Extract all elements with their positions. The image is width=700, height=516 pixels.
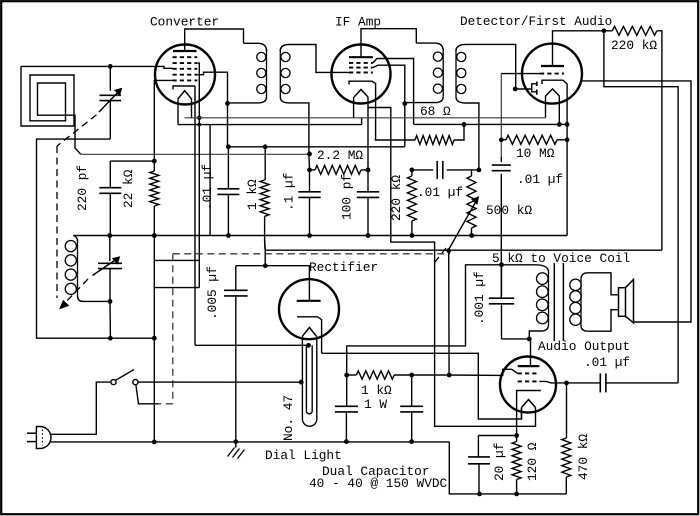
- node osc coil bottom: [108, 299, 113, 304]
- node 220pf top: [152, 159, 157, 164]
- IF transformer T2 secondary: [456, 44, 466, 51]
- wire detector plate feedback jog: [604, 31, 678, 383]
- wire IF amp heater left leg: [353, 97, 355, 118]
- resistor 120 Ohm: [516, 436, 518, 442]
- node IF2 secondary bottom to pot: [477, 168, 482, 173]
- svg-text:.001 µf: .001 µf: [472, 271, 487, 325]
- wire B+ distribution line: [265, 249, 662, 251]
- svg-text:Audio Output: Audio Output: [538, 339, 630, 354]
- node 40uf B ground: [409, 439, 414, 444]
- capacitor .1 uf: [307, 152, 312, 157]
- svg-text:IF Amp: IF Amp: [335, 15, 381, 30]
- converter cathode: [173, 86, 195, 90]
- wire antenna top to converter grid: [21, 65, 155, 67]
- capacitor 100 pf: [366, 168, 371, 173]
- svg-text:220 pf: 220 pf: [75, 165, 90, 211]
- wire antenna inner return (AVC bus): [81, 153, 310, 155]
- node 120 ohm ground: [514, 492, 519, 497]
- svg-text:.01 µf: .01 µf: [200, 164, 215, 210]
- output transformer secondary: [581, 273, 588, 279]
- wire right-edge voice coil return: [582, 81, 691, 322]
- on/off switch S1: [111, 380, 116, 385]
- wire IF amp grid2 lead right lower: [373, 65, 405, 103]
- node 1k left: [344, 373, 349, 378]
- wire secondary to speaker bottom: [588, 310, 619, 332]
- node 68 ohm to heater line: [462, 122, 467, 127]
- svg-text:Converter: Converter: [150, 15, 219, 30]
- chassis ground symbol: [235, 442, 237, 448]
- resistor 22 kOhm (osc grid leak): [150, 171, 159, 206]
- svg-text:Rectifier: Rectifier: [309, 260, 378, 275]
- wire main AVC/ground rail: [73, 235, 567, 237]
- tube V5 Audio Output envelope: [500, 357, 556, 413]
- dashed gang box bottom: [158, 403, 172, 405]
- tube V4 Rectifier envelope: [279, 279, 339, 339]
- node oscillator cap stem on bottom bus: [108, 336, 113, 341]
- node audio plate / primary junction: [527, 337, 532, 342]
- wiper arrow of volume control: [449, 197, 479, 250]
- wire rectifier cathode B+ feed: [322, 353, 522, 419]
- capacitor 220 pf: [99, 187, 121, 189]
- svg-text:120 Ω: 120 Ω: [525, 442, 540, 481]
- wire rectifier plate to line: [236, 266, 310, 301]
- svg-text:500 kΩ: 500 kΩ: [486, 203, 532, 218]
- resistor 68 Ohm: [375, 139, 415, 141]
- svg-text:20 µf: 20 µf: [492, 443, 507, 481]
- wire screen dropper branch: [209, 125, 211, 236]
- resistor 470 kOhm: [566, 383, 568, 438]
- wire detector cathode down: [563, 80, 567, 235]
- node rectifier plate / .005 junction: [263, 263, 268, 268]
- ganged tuning dashed link: [57, 115, 97, 146]
- wire grid2 jumper lower: [154, 287, 199, 289]
- wire audio grid2 to coupling cap: [539, 381, 566, 383]
- arrow of variable capacitor C1: [99, 89, 122, 113]
- node B+ to output transformer: [499, 262, 504, 267]
- node osc bus on bottom rail: [152, 440, 157, 445]
- svg-text:68 Ω: 68 Ω: [420, 104, 451, 119]
- svg-text:100 pf: 100 pf: [340, 174, 355, 220]
- detector heater: [546, 89, 560, 96]
- IF transformer T1 secondary: [280, 45, 289, 52]
- capacitor .01 uf coupling to volume: [412, 169, 433, 171]
- svg-text:.01 µf: .01 µf: [517, 172, 563, 187]
- IF amp heater: [354, 90, 368, 98]
- tube V2 IF Amp envelope: [332, 45, 391, 104]
- wire audio plate up: [530, 339, 532, 366]
- svg-text:2.2 MΩ: 2.2 MΩ: [317, 148, 363, 163]
- tube V3 Detector/First Audio envelope: [522, 44, 582, 104]
- svg-text:22 kΩ: 22 kΩ: [121, 169, 136, 208]
- potentiometer 500 kOhm (volume): [471, 170, 473, 176]
- svg-text:.1 µf: .1 µf: [282, 173, 297, 211]
- wire switch to dial light: [138, 381, 301, 383]
- svg-text:Dial Light: Dial Light: [265, 448, 342, 463]
- svg-text:Detector/First Audio: Detector/First Audio: [460, 14, 612, 29]
- wire converter plate to IF1 primary: [185, 29, 244, 51]
- IF amp plate: [349, 56, 373, 58]
- wire tuning return to left bus: [37, 139, 155, 338]
- wire screen node down through .01uf: [227, 103, 229, 146]
- capacitor .005 uf line bypass: [235, 266, 237, 291]
- AC plug: [36, 427, 51, 449]
- wire audio heater left leg: [521, 408, 523, 420]
- wire converter grid2 lead down: [197, 63, 199, 288]
- node detector plate junction: [602, 28, 607, 33]
- node IF1 primary bottom / screen junction: [225, 101, 230, 106]
- node dial light top: [306, 343, 311, 348]
- rectifier heater: [302, 328, 316, 337]
- output transformer core: [553, 263, 555, 341]
- capacitor .01 uf (converter screen bypass): [226, 144, 231, 149]
- svg-text:1 kΩ: 1 kΩ: [361, 383, 392, 398]
- wire heater jog chain to audio output heater: [368, 108, 536, 427]
- IF amp grids: [349, 62, 373, 64]
- wire heater chain lower rail: [178, 124, 362, 126]
- wire screen bypass down: [404, 104, 406, 147]
- dashed link volume to switch: [434, 248, 447, 264]
- IF amp cathode: [349, 81, 376, 140]
- wire converter cathode down to dial light: [194, 86, 196, 345]
- capacitor 40 uf A (dual electrolytic): [346, 375, 348, 406]
- dashed gang box left: [172, 254, 174, 404]
- rectifier cathode: [297, 317, 322, 354]
- wire converter oscillator grid line: [154, 80, 172, 171]
- node .005 ground: [233, 439, 238, 444]
- converter grids (pentagrid): [173, 56, 198, 58]
- variable capacitor C1 (tuning): [109, 66, 111, 90]
- svg-text:10 MΩ: 10 MΩ: [516, 146, 555, 161]
- IF transformer T1 primary: [244, 43, 267, 51]
- variable capacitor C2 (oscillator): [109, 236, 111, 262]
- resistor 220 kOhm (plate load): [604, 30, 612, 32]
- resistor 220 kOhm vertical: [410, 168, 415, 173]
- wire detector grid lead left: [501, 73, 540, 75]
- audio output cathode: [517, 391, 541, 436]
- wire plug to switch: [50, 382, 111, 434]
- audio output heater: [522, 400, 536, 408]
- node dial light side: [299, 380, 304, 385]
- detector diode plates: [536, 82, 538, 86]
- wire converter heater right leg: [191, 99, 193, 118]
- node cathode bias junction: [514, 433, 519, 438]
- node detector cathode junction upper: [565, 122, 570, 127]
- output transformer primary: [502, 264, 536, 266]
- node 1k right: [409, 373, 414, 378]
- resistor 2.2 MOhm: [307, 168, 312, 173]
- capacitor .01 uf detector filter: [500, 74, 502, 157]
- wire IF amp plate to IF2 primary: [361, 29, 416, 58]
- wire IF2 secondary top to detector diodes: [466, 44, 516, 89]
- wire heater/AVC bus: [185, 117, 546, 119]
- node antenna / tuning cap junction: [108, 64, 113, 69]
- node diode feed: [513, 87, 518, 92]
- rectifier plate: [297, 300, 321, 302]
- node volume wiper on B+ line: [446, 248, 451, 253]
- svg-text:.01 µf: .01 µf: [417, 185, 463, 200]
- wire converter cathode to dial light: [195, 344, 306, 346]
- IF transformer T2 primary: [416, 43, 443, 51]
- node grid2 line on heater bus: [197, 116, 201, 120]
- wire junction up to B+ rail: [264, 250, 266, 266]
- converter heater: [178, 91, 192, 100]
- wire grid line to audio output: [412, 374, 449, 376]
- node audio grid coupling: [564, 381, 569, 386]
- wire B+ from output transformer to filter: [347, 265, 502, 375]
- node 40uf A ground: [344, 439, 349, 444]
- node 20uf ground: [477, 492, 482, 497]
- svg-text:.005 µf: .005 µf: [205, 266, 220, 320]
- resistor 10 MOhm: [499, 137, 504, 142]
- wire secondary to speaker top: [588, 273, 619, 295]
- switch mechanical hook: [136, 385, 159, 404]
- wire screen node to 1k top: [228, 146, 404, 148]
- loop antenna L1: [21, 66, 81, 154]
- audio output grids: [518, 372, 540, 374]
- node heater chain right: [557, 122, 562, 127]
- dial light No. 47 bulb: [301, 336, 303, 419]
- wire ground rail right section: [449, 442, 566, 494]
- svg-text:.01 µf: .01 µf: [584, 355, 630, 370]
- node oscillator grid line on bottom bus: [152, 336, 157, 341]
- wire detector heater left leg: [545, 96, 547, 118]
- tube V1 Converter envelope: [155, 45, 215, 105]
- svg-text:No. 47: No. 47: [281, 395, 296, 441]
- svg-text:1 W: 1 W: [364, 397, 387, 412]
- audio output plate: [518, 365, 540, 367]
- detector grid: [540, 73, 564, 75]
- wire converter heater left leg: [177, 99, 179, 124]
- wire heater chain upper right: [414, 123, 567, 125]
- detector cathode: [542, 80, 563, 84]
- arrow of oscillator capacitor: [93, 257, 120, 276]
- wire grid2 jumper upper: [154, 259, 199, 261]
- resistor 1 kOhm 1 W: [347, 374, 357, 376]
- capacitor 20 uf: [478, 435, 516, 437]
- converter plate: [173, 50, 197, 52]
- svg-text:40 - 40 @ 150 WVDC: 40 - 40 @ 150 WVDC: [309, 476, 448, 491]
- detector plate: [541, 65, 564, 67]
- capacitor .001 uf tone: [501, 265, 503, 296]
- wire plug bottom to ground rail: [50, 441, 450, 443]
- resistor 1 kOhm (B+ dropping): [263, 144, 268, 149]
- svg-text:470 kΩ: 470 kΩ: [576, 434, 591, 480]
- wire detector heater right leg: [558, 96, 560, 124]
- svg-text:220 kΩ: 220 kΩ: [389, 175, 404, 221]
- capacitor 40 uf B (dual electrolytic): [411, 375, 413, 406]
- oscillator coil L2: [73, 236, 77, 242]
- wire converter screen grid to IF1 node: [197, 72, 227, 103]
- svg-text:5 kΩ to Voice Coil: 5 kΩ to Voice Coil: [492, 251, 630, 266]
- dashed gang box top: [173, 253, 450, 255]
- node IF2 primary bottom junction: [402, 101, 407, 106]
- svg-text:220 kΩ: 220 kΩ: [611, 38, 657, 53]
- capacitor .01 uf output coupling: [567, 382, 601, 384]
- wire IF amp screen lead right upper: [373, 59, 414, 125]
- wire detector plate up to 220k: [553, 31, 604, 66]
- wire IF amp heater right leg: [367, 97, 369, 170]
- wire IF1 secondary top to IF amp grid: [289, 45, 349, 73]
- svg-text:1 kΩ: 1 kΩ: [245, 179, 260, 210]
- speaker: [619, 288, 626, 317]
